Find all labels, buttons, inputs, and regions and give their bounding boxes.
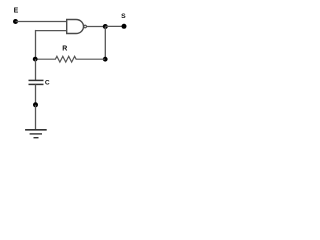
resistor R zigzag (35, 56, 105, 62)
svg-text:E: E (14, 8, 19, 15)
wire capacitor to lower node (35, 84, 37, 104)
capacitor C top plate (29, 79, 44, 81)
svg-text:S: S (121, 13, 126, 20)
wire gate output (87, 26, 106, 28)
node S terminal (122, 24, 127, 29)
ground (25, 130, 47, 138)
capacitor C bottom plate (29, 83, 44, 85)
NAND gate U1 body (67, 20, 84, 34)
wire junction down to resistor right (104, 27, 106, 60)
NAND gate U1 inversion bubble (84, 25, 87, 28)
wire feedback vertical rail (35, 30, 37, 59)
wire junction to S (105, 25, 124, 27)
node resistor right (103, 57, 108, 62)
node lower junction (33, 102, 38, 107)
svg-text:C: C (45, 80, 50, 87)
wire E to gate input 1 (16, 21, 67, 23)
node E terminal (13, 19, 18, 24)
wire lower node to ground (35, 105, 37, 130)
node output junction (103, 24, 108, 29)
wire node down to capacitor (35, 59, 37, 80)
node resistor left / capacitor top (33, 57, 38, 62)
wire feedback horizontal to gate input 2 (36, 30, 67, 32)
svg-text:R: R (62, 46, 67, 53)
